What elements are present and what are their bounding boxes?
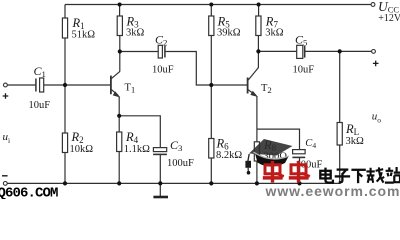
- wire T2 emitter down: [256, 96, 258, 129]
- svg-text:8.2kΩ: 8.2kΩ: [216, 150, 242, 161]
- wire R6 bottom: [210, 158, 212, 183]
- svg-text:ui: ui: [3, 131, 11, 145]
- watermark red chong 1: [263, 161, 284, 183]
- watermark char zhan: [385, 167, 400, 183]
- wire RL bottom: [339, 145, 341, 183]
- wire C3 bottom to ground: [159, 155, 161, 197]
- svg-text:R4: R4: [125, 130, 139, 145]
- wire emitter branch to C4: [257, 129, 300, 150]
- wire T1 emitter down: [118, 97, 120, 116]
- wire R7 bottom to T2 collector: [257, 36, 259, 69]
- wire R5 top: [210, 5, 212, 17]
- transistor T1: [111, 71, 120, 97]
- wire bottom rail: [7, 182, 340, 184]
- svg-text:39kΩ: 39kΩ: [217, 28, 241, 39]
- wire R5 bottom: [210, 36, 212, 86]
- wire RL top: [339, 51, 341, 122]
- node T1 collector: [118, 49, 122, 53]
- svg-text:Q606.COM: Q606.COM: [0, 186, 58, 200]
- svg-text:10uF: 10uF: [293, 65, 315, 76]
- transistor T2: [248, 68, 259, 97]
- svg-text:51kΩ: 51kΩ: [72, 30, 96, 41]
- wire C2 left: [120, 51, 158, 53]
- resistor R7: [256, 16, 261, 36]
- watermark char zi: [335, 170, 350, 183]
- resistor R2: [62, 133, 67, 153]
- svg-text:1.1kΩ: 1.1kΩ: [124, 144, 150, 155]
- resistor R8: [254, 142, 259, 161]
- node R3 top: [118, 3, 122, 7]
- node rail R4: [117, 181, 121, 185]
- terminal Ucc: [371, 3, 375, 7]
- svg-text:10uF: 10uF: [152, 65, 174, 76]
- node rail R8: [255, 181, 259, 185]
- capacitor C2: [158, 45, 165, 58]
- svg-text:10kΩ: 10kΩ: [70, 144, 94, 155]
- output plus sign: [373, 61, 379, 67]
- svg-text:R2: R2: [71, 130, 84, 145]
- terminal input bottom: [3, 182, 7, 186]
- svg-text:C3: C3: [170, 138, 183, 153]
- wire C2 right and down to T2 base: [165, 52, 247, 86]
- watermark red chong 2: [289, 161, 310, 183]
- wire R8 top: [256, 129, 258, 142]
- capacitor C5: [297, 45, 305, 58]
- node output C5: [338, 49, 342, 53]
- watermark char dian: [320, 168, 333, 183]
- wire R3 bottom to collector: [119, 36, 121, 72]
- input minus sign: [2, 175, 8, 177]
- svg-text:C1: C1: [34, 64, 46, 79]
- resistor R1: [62, 18, 67, 38]
- resistor RL: [337, 123, 342, 146]
- wire R2 bottom: [64, 153, 66, 184]
- node T1 base: [63, 83, 67, 87]
- svg-text:RL: RL: [345, 122, 359, 137]
- watermark graduation cap: [245, 139, 292, 175]
- resistor R5: [209, 16, 214, 36]
- capacitor C1: [36, 78, 44, 92]
- svg-text:+12V: +12V: [378, 13, 400, 24]
- wire R8 bottom: [256, 161, 258, 183]
- resistor R6: [209, 139, 214, 159]
- svg-text:C2: C2: [155, 33, 167, 48]
- wire C5 left: [258, 50, 296, 52]
- svg-text:www.eeworm.com: www.eeworm.com: [265, 183, 400, 199]
- ground: [153, 196, 168, 199]
- watermark char xia: [351, 170, 365, 183]
- wire emitter to C3: [119, 116, 160, 148]
- wire R1 column top: [64, 5, 66, 19]
- svg-text:100uF: 100uF: [167, 158, 194, 169]
- svg-text:10uF: 10uF: [29, 100, 51, 111]
- wire R1 to base node: [64, 38, 66, 85]
- wire C5 right to output: [305, 50, 372, 52]
- resistor R3: [117, 16, 122, 36]
- svg-text:3kΩ: 3kΩ: [265, 28, 284, 39]
- wire R3 top: [119, 5, 121, 17]
- node rail R2: [63, 181, 67, 185]
- input plus sign: [3, 93, 9, 99]
- capacitor C4: [292, 150, 305, 158]
- wire R6 top: [210, 85, 212, 139]
- wire R2 top: [64, 85, 66, 133]
- wire C4 bottom: [299, 158, 301, 184]
- wire input to C1: [7, 84, 36, 86]
- svg-text:C5: C5: [295, 33, 308, 48]
- node T1 emitter: [117, 114, 121, 118]
- node R7 top: [257, 3, 261, 7]
- terminal input top: [4, 83, 8, 87]
- node T2 collector: [256, 49, 260, 53]
- node rail C4: [297, 181, 301, 185]
- terminal output: [372, 50, 376, 54]
- wire C1 to T1 base: [44, 84, 111, 86]
- watermark char zai: [366, 167, 384, 182]
- wire R4 top: [118, 116, 120, 132]
- node R5 top: [209, 3, 213, 7]
- svg-text:C4: C4: [305, 138, 316, 150]
- wire R7 top: [258, 5, 260, 17]
- svg-text:3kΩ: 3kΩ: [346, 136, 365, 147]
- wire R4 bottom: [118, 152, 120, 184]
- svg-text:3kΩ: 3kΩ: [126, 28, 145, 39]
- node T2 base: [209, 83, 213, 87]
- capacitor C3: [153, 148, 167, 155]
- svg-text:T2: T2: [261, 83, 272, 95]
- resistor R4: [117, 132, 122, 152]
- svg-text:T1: T1: [125, 83, 136, 95]
- wire top rail: [65, 4, 371, 6]
- node rail R6: [209, 181, 213, 185]
- node rail ground: [158, 181, 162, 185]
- svg-text:uo: uo: [372, 111, 382, 125]
